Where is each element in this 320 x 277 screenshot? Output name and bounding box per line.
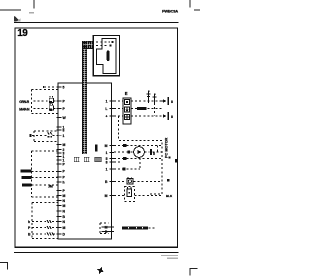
wire label bold bottom: [122, 226, 156, 229]
sensor B dashed box: [34, 131, 58, 142]
svg-text:8: 8: [171, 100, 173, 104]
wire D2: [28, 226, 58, 230]
motor M circle: [134, 147, 145, 158]
svg-text:JM: JM: [48, 184, 53, 188]
fuse bar: [137, 107, 147, 110]
sensor T (y181.5): [114, 177, 162, 184]
connector hatch group 3: [94, 157, 101, 162]
wire stub pin 5: [44, 86, 57, 88]
ignition switch key bar: [107, 51, 110, 62]
wire C3: [32, 184, 59, 186]
wire motor row 3: [114, 157, 162, 160]
wire label COND1: [21, 169, 32, 172]
svg-text:BLK: BLK: [166, 194, 173, 198]
wire D3: [28, 233, 58, 237]
ECU connector strip horizontal: [82, 41, 93, 48]
injector Y1: [49, 96, 58, 104]
ECU left pin labels: [63, 85, 67, 236]
wire row y170: [114, 158, 140, 170]
ECU right pins: [110, 101, 115, 232]
harness box C: [32, 151, 59, 197]
ECU control unit box: [58, 83, 112, 239]
crop mark top-right: [190, 0, 200, 10]
wire D1: [28, 220, 58, 224]
svg-text:5: 5: [153, 152, 155, 156]
crop mark top-left: [0, 0, 34, 14]
svg-text:8: 8: [171, 115, 173, 119]
svg-text:FWBC3A: FWBC3A: [162, 9, 178, 14]
svg-text:+: +: [106, 114, 108, 118]
wire label COND2: [22, 176, 32, 179]
ignition switch contour: [97, 38, 116, 73]
node square: [167, 179, 170, 181]
connector hatch group 2: [84, 157, 89, 162]
crop mark bottom-left: [0, 262, 8, 269]
connector label blob: [95, 144, 98, 151]
wire motor row 2: [114, 151, 162, 154]
footer credit text: [161, 255, 178, 259]
harness box D: [32, 203, 58, 239]
svg-text:h: h: [63, 180, 65, 184]
svg-text:M: M: [63, 226, 66, 230]
terminal bar +30: [161, 97, 174, 105]
page frame: [15, 28, 178, 247]
wire to Jv: [29, 134, 58, 137]
wire relay row 3: [114, 115, 162, 117]
page link mark: [175, 159, 178, 163]
motor area dashed box: [119, 141, 162, 195]
terminal bar +15: [163, 112, 173, 120]
wire row y164: [114, 161, 122, 163]
wire C2: [32, 177, 59, 179]
svg-text:M: M: [63, 143, 66, 147]
svg-text:8: 8: [63, 129, 65, 133]
wire to Y1: [34, 100, 48, 102]
node mark: [169, 157, 171, 159]
wire label COND3: [22, 183, 32, 186]
wire motor row 1: [114, 144, 162, 147]
svg-text:1: 1: [106, 99, 108, 103]
crop mark bottom-right: [190, 269, 198, 276]
svg-text:MAR-N: MAR-N: [19, 107, 30, 111]
svg-text:1: 1: [63, 134, 65, 138]
svg-text:h: h: [28, 220, 30, 224]
svg-text:PC MOTOR: PC MOTOR: [165, 137, 169, 158]
svg-text:8: 8: [106, 160, 108, 164]
svg-text:5: 5: [63, 85, 65, 89]
header rule: [14, 22, 179, 23]
connector hatch group 1: [74, 157, 79, 162]
wire to Y2: [34, 108, 48, 110]
splice symbol A: [147, 90, 151, 103]
svg-text:M: M: [105, 194, 108, 198]
svg-text:1: 1: [106, 151, 108, 155]
footer rule: [14, 252, 179, 253]
wire C1: [32, 170, 59, 172]
ECU left pins: [57, 87, 62, 234]
ECU right pin labels: [105, 99, 108, 234]
injector Y2: [49, 103, 58, 111]
modulator box (y195.5): [114, 187, 162, 202]
wire relay row 2: [114, 108, 162, 110]
svg-text:L: L: [105, 107, 107, 111]
wire link vertical: [157, 146, 159, 153]
svg-text:M: M: [105, 144, 108, 148]
registration star bottom-center: [96, 266, 106, 276]
header flag: [14, 16, 21, 22]
svg-text:GRN-R: GRN-R: [19, 100, 29, 104]
splice symbol B: [153, 93, 157, 103]
connector bracket bottom: [100, 223, 114, 234]
inline connector 5: [150, 149, 155, 156]
relay K box: [123, 98, 131, 124]
link to motor box: [118, 116, 120, 141]
ECU connector strip vertical: [82, 41, 87, 154]
wire rows into switch: [88, 41, 114, 46]
svg-text:1: 1: [106, 167, 108, 171]
svg-text:M: M: [63, 204, 66, 208]
injector group dashed box: [32, 90, 59, 114]
wire relay row 1: [114, 100, 162, 102]
ignition switch unit box: [93, 36, 119, 76]
svg-text:E: E: [125, 91, 128, 96]
link dashes vertical: [154, 103, 156, 116]
svg-text:M: M: [63, 194, 66, 198]
sensor Jv: [48, 132, 53, 137]
svg-text:19: 19: [17, 28, 28, 39]
